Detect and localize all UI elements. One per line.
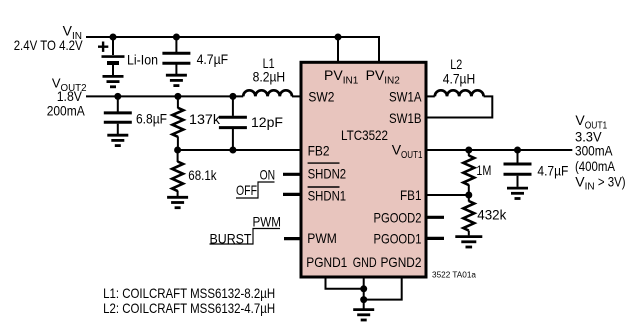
svg-text:68.1k: 68.1k: [188, 167, 217, 183]
svg-text:PGOOD2: PGOOD2: [374, 209, 422, 225]
pin stub PWM: [284, 237, 302, 240]
battery BT1 Li-Ion: [98, 37, 125, 75]
svg-text:L2: COILCRAFT MSS6132-4.7µH: L2: COILCRAFT MSS6132-4.7µH: [103, 300, 275, 316]
inductor L2: [435, 90, 484, 96]
svg-text:3522 TA01a: 3522 TA01a: [432, 271, 477, 280]
pin label PGOOD1: [374, 230, 422, 246]
node junction FB1-divider: [465, 192, 472, 199]
svg-text:200mA: 200mA: [47, 103, 86, 119]
wire SW1A to L2: [425, 95, 435, 97]
pin label VOUT1: [392, 142, 423, 161]
pin label PGND1: [306, 254, 347, 270]
wire VIN rail: [86, 37, 379, 63]
value label 1M: [476, 162, 491, 178]
svg-text:OFF: OFF: [236, 182, 257, 198]
svg-text:FB2: FB2: [308, 142, 330, 158]
value label 4.7uF output: [537, 163, 568, 179]
svg-text:4.7µF: 4.7µF: [197, 51, 229, 67]
node junction VIN-PVIN1: [335, 34, 342, 41]
node junction FB2-R1R2: [174, 147, 181, 154]
label L1 8.2uH: [253, 55, 286, 85]
capacitor C2 6.8uF: [104, 96, 132, 134]
ground under R2: [167, 197, 188, 207]
svg-text:432k: 432k: [477, 207, 507, 223]
pin label PVIN1: [324, 67, 359, 86]
pin label PVIN2: [366, 67, 401, 86]
value label 6.8uF: [136, 110, 167, 126]
svg-text:SHDN2: SHDN2: [308, 166, 347, 182]
wire L1 to SW2 pin: [292, 95, 302, 97]
pin label SW2: [308, 88, 334, 104]
value label 137k: [189, 111, 221, 127]
main ground: [353, 310, 374, 320]
part name LTC3522: [341, 127, 388, 143]
label L2 4.7uH: [443, 56, 476, 86]
node junction VIN-C1: [173, 34, 180, 41]
pin label FB2: [308, 142, 330, 158]
svg-text:PWM: PWM: [253, 214, 282, 230]
value label 12pF: [251, 114, 283, 130]
svg-text:300mA: 300mA: [575, 143, 613, 159]
svg-text:PGND1: PGND1: [306, 254, 347, 270]
svg-text:137k: 137k: [189, 111, 221, 127]
pin stub PGOOD2: [425, 216, 444, 219]
svg-text:LTC3522: LTC3522: [341, 127, 388, 143]
resistor R1 137k: [172, 96, 183, 150]
inductor L1: [243, 90, 292, 96]
svg-text:FB1: FB1: [400, 187, 422, 203]
node junction VOUT1-C4: [514, 147, 521, 154]
wire GND to ground: [363, 276, 365, 309]
pin label GND: [353, 254, 377, 270]
pin label SHDN2 with overline: [308, 163, 347, 182]
label Li-Ion: [127, 52, 158, 68]
node junction VOUT2-R1: [174, 93, 181, 100]
svg-text:6.8µF: 6.8µF: [136, 110, 167, 126]
pin label SW1A: [389, 88, 422, 104]
node label VOUT2: [47, 76, 87, 119]
node junction FB2-C3: [229, 147, 236, 154]
pin label PGOOD2: [374, 209, 422, 225]
svg-text:ON: ON: [260, 167, 276, 183]
ground under battery: [103, 76, 124, 86]
note inductor types: [103, 285, 275, 316]
wire FB2 rail: [178, 149, 302, 151]
node label VIN: [14, 23, 84, 54]
capacitor C4 4.7uF output: [504, 150, 532, 187]
annotation PWM/BURST logic step: [210, 214, 282, 247]
wire PVIN1 drop: [337, 37, 339, 63]
value label 432k: [477, 207, 507, 223]
value label 68.1k: [188, 167, 217, 183]
svg-text:Li-Ion: Li-Ion: [127, 52, 158, 68]
capacitor C1 4.7uF input: [162, 37, 190, 74]
wire FB1: [425, 194, 469, 196]
svg-text:4.7µH: 4.7µH: [443, 70, 476, 86]
svg-text:SW1B: SW1B: [389, 110, 422, 126]
svg-text:12pF: 12pF: [251, 114, 283, 130]
svg-text:1.8V: 1.8V: [57, 88, 83, 104]
node junction PGND2-GND: [360, 296, 367, 303]
capacitor C3 12pF: [219, 96, 247, 150]
pin stub SHDN2: [283, 173, 302, 176]
node junction VOUT2-C3: [229, 93, 236, 100]
wire L2 to SW1B: [426, 96, 492, 117]
resistor R3 1M: [463, 150, 474, 195]
wire VOUT2 rail to L1: [86, 95, 243, 97]
svg-text:SW2: SW2: [308, 88, 334, 104]
pin stub SHDN1: [283, 193, 302, 196]
svg-text:(400mA: (400mA: [575, 158, 616, 174]
node junction VIN-battery: [110, 34, 117, 41]
node junction VOUT1-R3: [465, 147, 472, 154]
svg-text:8.2µH: 8.2µH: [253, 69, 286, 85]
resistor R4 432k: [463, 195, 474, 235]
pin stub PGOOD1: [425, 237, 444, 240]
wire VOUT1 rail: [425, 149, 572, 151]
svg-text:4.7µF: 4.7µF: [537, 163, 568, 179]
pin label SW1B: [389, 110, 422, 126]
svg-text:GND: GND: [353, 254, 377, 270]
figure tag 3522 TA01a: [432, 271, 477, 280]
pin label SHDN1 with overline: [308, 187, 347, 204]
ground under C1: [166, 75, 187, 85]
svg-text:2.4V TO 4.2V: 2.4V TO 4.2V: [14, 37, 84, 53]
pin label PWM: [307, 230, 337, 246]
ground under C4: [507, 188, 528, 198]
resistor R2 68.1k: [172, 150, 183, 196]
node label VOUT1: [575, 112, 626, 193]
svg-text:1M: 1M: [476, 162, 491, 178]
svg-text:L1: COILCRAFT MSS6132-8.2µH: L1: COILCRAFT MSS6132-8.2µH: [103, 285, 275, 301]
node junction VOUT2-C2: [114, 93, 121, 100]
ground under R4: [455, 237, 482, 247]
wire PGND1 to ground: [326, 276, 364, 289]
ground under C2: [107, 135, 128, 145]
value label 4.7uF input: [197, 51, 229, 67]
pin label FB1: [400, 187, 422, 203]
op-amp/IC U1 LTC3522 body: [301, 62, 426, 277]
svg-text:PWM: PWM: [307, 230, 337, 246]
pin label PGND2: [381, 254, 422, 270]
node junction PGND1-GND: [360, 285, 367, 292]
svg-text:PGOOD1: PGOOD1: [374, 230, 422, 246]
annotation ON/OFF logic step: [236, 167, 275, 198]
wire PGND2 to ground: [364, 276, 402, 300]
svg-text:PGND2: PGND2: [381, 254, 422, 270]
svg-text:SHDN1: SHDN1: [308, 188, 347, 204]
svg-text:SW1A: SW1A: [389, 88, 422, 104]
